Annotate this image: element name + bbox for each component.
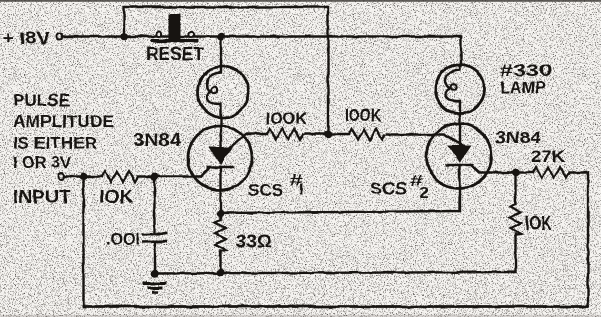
- resistor 10K input: [102, 171, 138, 182]
- svg-text:IS EITHER: IS EITHER: [13, 134, 97, 153]
- wire: gate node to 27K: [516, 171, 533, 173]
- terminal INPUT: [58, 174, 64, 180]
- svg-text:SCS: SCS: [370, 180, 407, 198]
- svg-text:SCS: SCS: [248, 182, 283, 200]
- wire: supply drop to lamp 2: [460, 37, 462, 67]
- wire: SCS2 cathode down: [458, 165, 460, 211]
- wire: 100K no.1 to common node: [305, 133, 328, 135]
- svg-text:.OOI: .OOI: [106, 230, 140, 249]
- resistor 10K no.2 vertical: [510, 204, 521, 236]
- wire: input node down to bottom rail: [82, 177, 84, 307]
- svg-text:IOOK: IOOK: [345, 105, 381, 125]
- wire: common node to 100K no.2: [328, 133, 349, 135]
- wire: cathode tie line SCS1-SCS2: [221, 187, 460, 213]
- svg-text:3N84: 3N84: [495, 128, 542, 147]
- wire: SCS1 cathode-gate lead: [201, 167, 210, 177]
- resistor 100K no.2: [349, 129, 385, 140]
- wire: 33ohm top lead: [219, 214, 221, 220]
- wire: 100K no.2 to SCS2 anode-gate: [387, 135, 464, 146]
- svg-text:33Ω: 33Ω: [236, 231, 272, 252]
- wire: +18V supply rail: [62, 35, 461, 37]
- junction dot supply/bracket: [120, 33, 128, 41]
- wire: lamp1 to SCS1 anode: [220, 117, 222, 148]
- SCS U2 (3N84): [427, 124, 492, 189]
- SCS U1 (3N84): [188, 126, 252, 190]
- scan edge top: [0, 0, 601, 2]
- wire: bottom return rail: [84, 305, 589, 308]
- svg-text:AMPLITUDE: AMPLITUDE: [13, 112, 114, 131]
- lamp 1: [198, 66, 249, 118]
- svg-text:2: 2: [420, 185, 429, 202]
- wire: SCS1 anode-gate lead: [230, 134, 267, 147]
- svg-text:INPUT: INPUT: [13, 186, 72, 207]
- wire: capacitor top lead: [153, 177, 155, 233]
- junction dot 100K common: [324, 130, 332, 138]
- wire: 27K to right edge and down to bottom rail: [569, 173, 588, 307]
- junction dot capacitor top: [151, 173, 159, 181]
- wire: 10K no.2 to ground rail: [155, 234, 516, 274]
- wire: SCS2 cathode-gate lead: [471, 165, 516, 173]
- svg-text:RESET: RESET: [146, 44, 204, 64]
- svg-text:27K: 27K: [531, 148, 565, 166]
- wire: drop to lamp 1: [220, 37, 222, 68]
- svg-text:3N84: 3N84: [133, 130, 181, 150]
- svg-text:IOK: IOK: [99, 186, 134, 207]
- pushbutton RESET bar: [151, 39, 198, 43]
- svg-text:+ I8V: + I8V: [2, 28, 50, 48]
- junction dot capacitor bottom / ground: [151, 270, 159, 278]
- wire: lamp2 to SCS2 anode: [459, 113, 461, 146]
- svg-text:IOK: IOK: [525, 213, 552, 235]
- junction dot 33ohm bottom: [217, 269, 225, 277]
- pushbutton RESET terminal right: [188, 32, 193, 37]
- svg-text:I: I: [299, 182, 303, 199]
- resistor 33ohm vertical: [215, 220, 226, 252]
- svg-text:I OR 3V: I OR 3V: [13, 153, 72, 172]
- terminal +18V: [57, 34, 63, 40]
- resistor 100K no.1: [267, 129, 303, 140]
- junction dot gate2 node: [512, 169, 520, 177]
- wire: 10K to SCS1 gate: [138, 175, 201, 177]
- wire: SCS1 cathode down to 33ohm node: [219, 167, 221, 214]
- resistor 27K: [533, 167, 569, 178]
- junction dot input node: [80, 173, 88, 181]
- ground symbol: [143, 284, 167, 293]
- lamp 2 (#330): [436, 65, 485, 114]
- pushbutton RESET plunger: [169, 14, 181, 40]
- svg-text:IOOK: IOOK: [266, 110, 307, 128]
- wire: reset bypass bracket: [124, 7, 328, 134]
- pushbutton RESET terminal left: [156, 32, 161, 37]
- scan edge bottom: [0, 315, 601, 317]
- junction dot supply/lamp1: [217, 33, 225, 41]
- capacitor C .001: [143, 234, 168, 243]
- wire: capacitor bottom lead: [153, 243, 155, 274]
- wire: 33ohm bottom lead: [219, 251, 221, 273]
- wire: input line: [64, 175, 102, 177]
- wire: gate node down to 10K no.2: [514, 173, 516, 205]
- svg-text:LAMP: LAMP: [500, 78, 546, 97]
- junction dot cathode/33ohm: [217, 210, 225, 218]
- svg-text:PULSE: PULSE: [13, 90, 70, 110]
